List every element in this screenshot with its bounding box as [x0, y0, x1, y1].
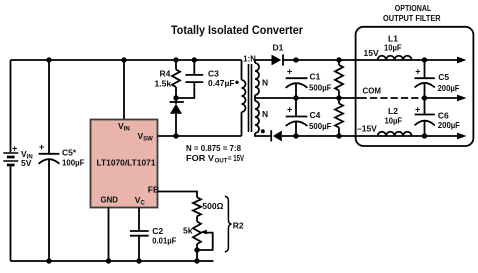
svg-text:C6: C6: [438, 110, 449, 120]
svg-text:N: N: [262, 109, 268, 119]
wire -15V output line: [282, 135, 457, 137]
node bottom rail junction at C2: [136, 258, 141, 263]
label 15V: [364, 48, 379, 58]
note N ratio: [186, 143, 244, 165]
svg-text:L2: L2: [388, 106, 398, 116]
resistor bleeder upper: [335, 60, 343, 98]
node 15V at C5 filter: [422, 57, 427, 62]
title Totally Isolated Converter: [171, 24, 303, 37]
capacitor C3 0.47uF: [176, 60, 239, 98]
op-amp U1 LT1070/LT1071 regulator block: [91, 120, 160, 208]
svg-text:D1: D1: [273, 43, 284, 53]
svg-text:N = 0.875 = 7:8: N = 0.875 = 7:8: [186, 143, 241, 153]
svg-text:+: +: [287, 105, 292, 115]
transformer T1 polarity dot: [261, 129, 265, 133]
svg-text:5V: 5V: [21, 158, 32, 168]
svg-text:+: +: [12, 144, 17, 154]
capacitor C1 500uF: [286, 66, 332, 98]
capacitor C5* 100uF input: [39, 60, 85, 261]
node 15V at bleeder: [336, 57, 341, 62]
inductor L1 10uF: [378, 33, 412, 60]
svg-text:200µF: 200µF: [438, 83, 460, 93]
diode D2 snubber clamp: [170, 102, 184, 136]
capacitor C6 200uF filter: [415, 98, 460, 136]
battery VIN 5V: [3, 60, 32, 261]
arrow 15V output: [457, 57, 467, 64]
svg-text:LT1070/LT1071: LT1070/LT1071: [97, 157, 156, 167]
resistor R4 1.5k: [155, 60, 181, 104]
node 15V at C1: [293, 57, 298, 62]
svg-text:N: N: [262, 77, 268, 87]
svg-text:–15V: –15V: [357, 123, 377, 133]
svg-text:5k: 5k: [183, 226, 193, 236]
node pot bottom junction: [194, 247, 199, 252]
svg-text:1.5k: 1.5k: [155, 78, 172, 88]
wire FB feedback: [158, 192, 198, 198]
node top rail junction at C5: [46, 57, 51, 62]
node -15V at bleeder: [336, 133, 341, 138]
svg-text:R2: R2: [233, 220, 244, 230]
wire VIN pin: [123, 60, 125, 120]
svg-text:100µF: 100µF: [62, 158, 85, 168]
svg-text:Totally Isolated Converter: Totally Isolated Converter: [171, 24, 303, 37]
svg-text:500µF: 500µF: [309, 121, 332, 131]
svg-text:C5: C5: [438, 72, 449, 82]
svg-text:C5*: C5*: [62, 148, 77, 158]
label -15V: [357, 123, 377, 133]
capacitor C5 200uF filter: [415, 60, 460, 98]
node -15V at C6 filter: [422, 133, 427, 138]
svg-text:FOR V: FOR V: [186, 153, 214, 163]
inductor L2 10uF: [378, 106, 412, 136]
capacitor C4 500uF: [286, 98, 332, 136]
svg-text:10µF: 10µF: [384, 43, 402, 53]
wire 15V output line: [283, 59, 457, 61]
svg-text:500Ω: 500Ω: [202, 201, 223, 211]
potentiometer 5k: [183, 222, 213, 262]
arrow -15V output: [457, 133, 467, 140]
node R4/C3 junction: [173, 95, 178, 100]
node bottom rail junction at R2: [194, 258, 199, 263]
svg-text:+: +: [39, 142, 44, 152]
wire VSW line: [158, 135, 242, 137]
svg-text:OUTPUT FILTER: OUTPUT FILTER: [383, 14, 441, 23]
svg-text:C3: C3: [208, 68, 219, 78]
svg-text:1:N: 1:N: [243, 53, 256, 63]
node top rail junction at VIN: [121, 57, 126, 62]
svg-text:+: +: [287, 66, 292, 76]
svg-text:FB: FB: [148, 184, 159, 194]
svg-text:R4: R4: [160, 68, 171, 78]
svg-text:10µF: 10µF: [385, 116, 403, 126]
svg-text:+: +: [415, 67, 420, 77]
node COM at bleeders: [336, 95, 341, 100]
wire GND pin: [108, 208, 110, 262]
node top rail junction at C3: [192, 57, 197, 62]
capacitor C2 0.01uF on VC: [130, 208, 176, 262]
diode D1: [272, 43, 284, 66]
transformer T1 core: [249, 64, 252, 132]
svg-text:= 15V: = 15V: [228, 154, 244, 163]
transformer T1 label 1:N: [243, 53, 256, 63]
transformer T1 secondary upper winding N: [255, 60, 272, 101]
optional output filter box: [356, 4, 474, 146]
svg-text:COM: COM: [363, 85, 382, 95]
node bottom rail junction at GND: [106, 258, 111, 263]
svg-text:C4: C4: [310, 110, 321, 120]
arrow COM output: [457, 95, 467, 102]
wire bottom rail: [11, 260, 214, 262]
wire top rail: [11, 59, 242, 61]
svg-text:500µF: 500µF: [309, 82, 332, 92]
svg-text:OPTIONAL: OPTIONAL: [395, 4, 432, 13]
node COM at C5/C6 filter: [422, 95, 427, 100]
node top rail junction at R4: [173, 57, 178, 62]
label COM: [363, 85, 382, 95]
diode D3 lower output: [271, 130, 282, 141]
svg-text:C2: C2: [152, 226, 163, 236]
transformer T1 secondary lower winding N: [255, 101, 270, 136]
resistor 500 ohm: [193, 197, 224, 221]
svg-text:+: +: [415, 105, 420, 115]
node -15V at C4: [293, 133, 298, 138]
svg-text:15V: 15V: [364, 48, 379, 58]
node VSW junction at snubber: [173, 133, 178, 138]
svg-text:0.47µF: 0.47µF: [208, 78, 235, 88]
node bottom rail junction at C5: [46, 258, 51, 263]
svg-text:OUT: OUT: [215, 158, 228, 164]
svg-text:200µF: 200µF: [438, 120, 460, 130]
svg-text:GND: GND: [101, 194, 119, 204]
brace R2: [225, 196, 244, 252]
svg-text:0.01µF: 0.01µF: [152, 235, 176, 245]
node COM at C1/C4: [293, 95, 298, 100]
resistor bleeder lower: [335, 98, 343, 136]
wire COM line: [255, 97, 457, 99]
transformer T1 primary winding: [242, 60, 246, 136]
svg-text:C1: C1: [310, 71, 321, 81]
